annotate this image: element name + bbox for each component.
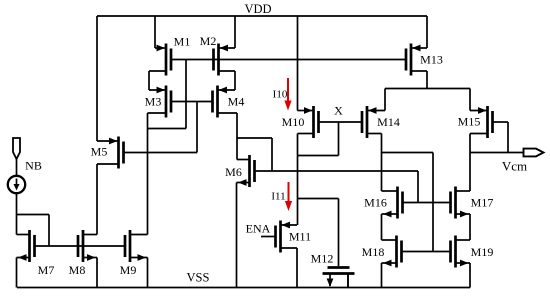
wire VDD to M10 source [297, 16, 299, 111]
wire M5 drain to M8 drain [96, 164, 98, 235]
transistor M1 [149, 35, 190, 76]
wire gate line to M5 gate [196, 102, 198, 153]
transistor M8 [69, 230, 97, 277]
gate line M7 M8 M9 [35, 245, 126, 247]
wire M4 drain to M6 drain [236, 113, 238, 160]
transistor M18 [362, 236, 402, 268]
gate line M3 M4 [171, 101, 213, 103]
svg-text:M10: M10 [282, 115, 305, 129]
svg-text:M11: M11 [289, 230, 311, 244]
transistor M4 [213, 86, 245, 118]
wire M13 drain down [426, 71, 428, 89]
svg-text:VSS: VSS [187, 271, 210, 285]
M15 gate lead [493, 121, 509, 123]
wire M11 drain to VSS [296, 248, 298, 288]
svg-text:M16: M16 [364, 196, 387, 210]
gate line M16 M17 [403, 202, 451, 204]
wire NB port to current source [16, 159, 18, 176]
wire M18 source to VSS [381, 263, 383, 288]
gate line M1 M2 M13 [171, 59, 406, 61]
wire M13 M14 M15 source line [385, 88, 470, 90]
wire node X drop [338, 122, 340, 156]
transistor M10 [282, 106, 319, 138]
svg-text:Vcm: Vcm [502, 159, 527, 174]
transistor M14 [362, 106, 400, 138]
wire M10 drain vertical [297, 134, 299, 226]
current I10 red arrow [273, 78, 292, 111]
wire M4 drain branch horizontal [237, 137, 272, 139]
wire M17 source to M19 drain [469, 214, 471, 240]
wire M8 source to VSS [96, 258, 98, 288]
wire M7 source to VSS [16, 258, 18, 288]
svg-text:I11: I11 [271, 191, 285, 203]
svg-text:ENA: ENA [246, 222, 271, 236]
NB input port [13, 138, 20, 159]
wire VDD to M2 source [234, 16, 236, 48]
wire M16 source to M18 drain [381, 214, 383, 240]
wire VDD to M5 source [96, 16, 98, 141]
output line Vcm [470, 152, 523, 154]
svg-text:M4: M4 [228, 95, 245, 109]
svg-text:M1: M1 [174, 35, 191, 49]
gate line M6 to M16 M17 [256, 170, 419, 172]
Vcm output port [524, 149, 544, 157]
svg-text:M14: M14 [377, 115, 400, 129]
transistor M7 [17, 230, 55, 277]
svg-text:M8: M8 [69, 263, 86, 277]
svg-text:M9: M9 [120, 263, 137, 277]
current I11 red arrow [271, 182, 292, 211]
VDD rail [97, 15, 427, 17]
svg-text:M6: M6 [225, 165, 242, 179]
svg-text:M13: M13 [420, 53, 443, 67]
transistor M9 [120, 230, 148, 277]
transistor M11 [276, 221, 312, 253]
wire down to M16 M17 gate line [417, 171, 419, 203]
transistor M19 [451, 236, 494, 268]
current source IB [8, 176, 25, 193]
svg-text:M12: M12 [311, 252, 334, 266]
wire M3 drain to M9 drain [147, 113, 149, 235]
svg-text:M7: M7 [38, 263, 55, 277]
svg-text:I10: I10 [273, 89, 288, 101]
wire VDD to M13 source [426, 16, 428, 48]
VSS rail [17, 287, 470, 289]
wire M19 source to VSS [469, 263, 471, 288]
transistor M16 [364, 187, 402, 219]
wire M1 drain to M3 source [148, 71, 150, 90]
node X gate line M10 M14 [319, 121, 363, 123]
M15 gate to drain [507, 122, 509, 153]
wire VDD to M1 source [154, 16, 156, 48]
transistor M6 [225, 155, 254, 187]
wire branch down to M6 gate line [271, 138, 273, 171]
wire M14 drain to M16 drain [381, 134, 383, 192]
wire down to M18 M19 gate line [432, 153, 434, 252]
gate line M18 M19 [402, 251, 451, 253]
svg-text:M5: M5 [91, 145, 108, 159]
wire M9 source to VSS [147, 258, 149, 288]
svg-text:M19: M19 [471, 245, 494, 259]
wire M6 source to VSS [236, 183, 238, 288]
wire M15 drain to M17 drain [469, 134, 471, 192]
transistor M2 [200, 34, 235, 76]
svg-text:M17: M17 [471, 196, 494, 210]
svg-text:M2: M2 [200, 34, 217, 48]
MOS capacitor M12 [311, 252, 355, 288]
transistor M17 [451, 187, 494, 219]
wire M12 drain to VSS [347, 274, 349, 288]
wire to M15 source [469, 89, 471, 111]
svg-text:M3: M3 [145, 95, 162, 109]
svg-text:VDD: VDD [244, 2, 271, 16]
wire NB branch to gate line [17, 214, 50, 216]
wire NB branch down [48, 215, 50, 247]
wire gate bias vertical [185, 60, 187, 129]
svg-text:NB: NB [25, 159, 42, 173]
svg-text:X: X [334, 104, 343, 118]
MOS capacitor M12 gate lead [338, 199, 340, 267]
ENA lead to M11 gate [261, 236, 276, 238]
wire node X to M10 drain [298, 155, 339, 157]
transistor M13 [406, 44, 443, 76]
wire M2 drain to M4 source [234, 71, 236, 90]
wire M3 drain loop bottom [148, 128, 187, 130]
transistor M3 [145, 86, 171, 118]
wire to M14 source [384, 89, 386, 111]
wire M14 drain branch [382, 152, 434, 154]
wire current source to M7 drain [16, 193, 18, 234]
svg-text:M15: M15 [458, 115, 481, 129]
wire to M12 gate [298, 198, 339, 200]
svg-text:M18: M18 [362, 245, 385, 259]
transistor M5 [91, 137, 124, 169]
transistor M15 [458, 106, 493, 138]
M5 gate lead [124, 152, 198, 154]
